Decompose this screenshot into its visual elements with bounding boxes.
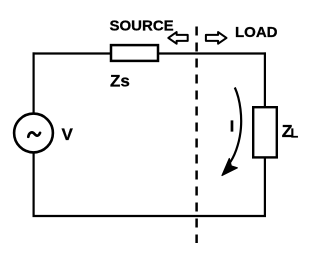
- source V (AC generator circle): [14, 114, 53, 153]
- svg-text:V: V: [62, 125, 74, 144]
- current I curved arrow: [229, 88, 242, 165]
- svg-text:L: L: [291, 127, 299, 141]
- svg-text:LOAD: LOAD: [235, 24, 278, 41]
- wire: left vertical from top corner to source circle top: [32, 52, 34, 114]
- wire: bottom horizontal: [33, 215, 267, 217]
- block arrow pointing right (toward load): [206, 32, 227, 44]
- wire: right vertical from load box bottom to bottom wire: [264, 157, 266, 217]
- source V tilde symbol: [28, 132, 40, 136]
- wire: left vertical from source circle bottom to bottom wire: [32, 152, 34, 217]
- block arrow pointing left (toward source): [168, 32, 187, 44]
- wire: top horizontal from left corner to right corner: [33, 52, 267, 54]
- wire: right vertical from top corner down to load box top: [264, 52, 266, 108]
- svg-text:SOURCE: SOURCE: [110, 17, 174, 34]
- svg-text:I: I: [230, 118, 234, 135]
- resistor Zs (series impedance box): [111, 45, 158, 61]
- svg-text:Zs: Zs: [110, 72, 130, 91]
- dashed boundary line between source and load: [195, 27, 198, 244]
- load ZL (load impedance box): [253, 107, 277, 157]
